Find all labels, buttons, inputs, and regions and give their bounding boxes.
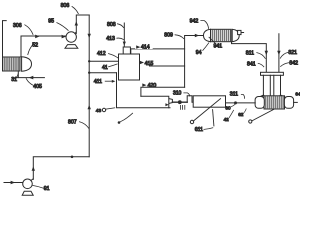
wire box to drum [226,102,256,104]
column 8 body [258,75,285,97]
label 94 [196,43,209,56]
svg-text:414: 414 [141,45,150,51]
exchanger bottom drain stub [17,71,19,78]
label 942 [190,19,209,29]
svg-text:43: 43 [96,108,102,114]
label 415 with arrow [140,61,154,67]
label 412 [97,51,118,58]
flow arrow up [75,21,78,25]
wire suction line to pump 95 [21,35,66,37]
svg-text:31: 31 [11,77,17,83]
label 811 [246,50,265,58]
wire pump 95 discharge [75,15,89,34]
svg-text:811: 811 [246,50,254,56]
svg-text:942: 942 [190,19,199,25]
junction node [88,72,90,74]
separator box 61 [193,96,225,107]
wire bottom feed line [4,182,23,184]
wire duct inner channel [141,96,169,108]
svg-text:611: 611 [195,127,203,133]
svg-text:64: 64 [295,91,300,96]
svg-text:310: 310 [173,91,182,97]
svg-text:821: 821 [288,50,297,56]
label 306 [13,23,33,35]
label 808 [107,22,124,28]
svg-text:60: 60 [225,106,231,111]
label 62 [238,109,246,117]
svg-text:413: 413 [106,36,115,42]
leader 611 [195,110,214,134]
svg-text:306: 306 [13,23,22,29]
heat exchanger 3 [3,57,32,72]
svg-text:809: 809 [164,33,173,39]
wire 415 line [150,65,185,67]
flow arrow [35,35,39,39]
svg-text:91: 91 [44,186,50,192]
wire duct outer [117,73,171,108]
wire 420 line [141,87,185,96]
channel arrow [165,103,168,106]
svg-text:411: 411 [94,79,102,85]
svg-text:62: 62 [238,112,244,117]
svg-text:415: 415 [145,61,154,67]
leader ring 43 [96,108,115,114]
svg-text:52: 52 [32,43,38,49]
leader dot 44 [118,113,133,124]
wire left inlet pipe [3,21,7,58]
svg-text:41: 41 [102,65,108,71]
label 841 [247,61,264,67]
label 420 with arrow [142,83,156,89]
column 8 top flange [261,72,284,75]
label 311 [230,92,245,99]
svg-text:841: 841 [247,61,256,67]
wire main riser [88,15,90,157]
svg-text:420: 420 [148,83,157,89]
ejector unit [169,96,193,110]
flow arrow up [88,105,91,109]
label 806 [61,3,79,13]
label 95 [48,18,68,30]
wire exchanger riser [20,36,22,57]
svg-text:95: 95 [48,18,54,24]
wire condenser outlet downcomer [232,42,267,73]
flow arrow down [265,51,268,55]
flow arrow [62,35,66,39]
label 807 [68,120,89,129]
wire neck feed pipe [123,23,125,47]
wire second feed to column [278,34,280,73]
label 52 [28,43,38,55]
reboiler drum 6 [255,96,297,109]
label 405 [26,79,42,91]
svg-text:42: 42 [224,117,230,122]
label 413 [106,36,123,42]
label 411 [94,79,116,85]
label 60 [225,104,235,110]
svg-text:806: 806 [61,3,70,9]
svg-text:941: 941 [214,44,223,50]
svg-text:808: 808 [107,22,116,28]
wire lower tap [89,72,116,74]
svg-text:842: 842 [289,61,298,67]
pump 95 [65,32,78,48]
svg-text:94: 94 [196,50,202,56]
drum drain leader [249,109,274,123]
flow arrow up [32,166,35,170]
wire 414 vapour line [131,49,185,54]
svg-text:807: 807 [68,120,77,126]
wire feed to vessel 41 [89,60,118,62]
label 821 [280,50,297,58]
svg-text:311: 311 [230,92,238,98]
label 941 [209,37,222,50]
flow arrow down [123,42,126,46]
junction node [234,101,237,104]
flow arrow down [88,34,91,38]
flow arrow [11,181,16,185]
label 310 [173,91,190,97]
flow arrow down [277,51,280,55]
flow arrow [29,76,34,80]
label 91 [33,186,50,192]
flow arrow right [195,34,199,37]
svg-text:405: 405 [33,84,42,90]
label 809 [164,33,184,39]
label 42 [224,110,234,122]
label 41 [102,64,117,71]
wire pump 91 discharge [31,157,89,181]
label 31 [11,74,18,83]
pump 91 [22,179,33,195]
wire riser to condenser [185,36,204,88]
junction node [88,60,90,62]
junction node [71,156,74,159]
wire drain line 405 [15,77,44,79]
svg-text:412: 412 [97,51,106,57]
vessel 41 [119,47,140,80]
leader ring 610 [190,99,220,124]
label 842 [281,61,299,67]
condenser 94 [204,29,244,41]
